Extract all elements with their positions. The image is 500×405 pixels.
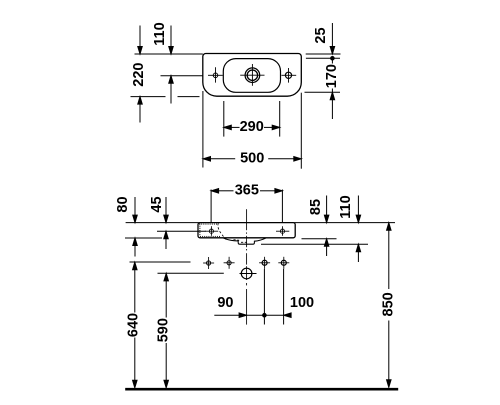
svg-text:220: 220 bbox=[131, 62, 147, 86]
svg-text:500: 500 bbox=[240, 151, 264, 167]
svg-text:85: 85 bbox=[308, 199, 324, 215]
svg-text:290: 290 bbox=[240, 119, 264, 135]
svg-text:90: 90 bbox=[217, 295, 233, 311]
svg-text:100: 100 bbox=[290, 295, 314, 311]
svg-text:850: 850 bbox=[380, 292, 396, 316]
svg-text:25: 25 bbox=[313, 27, 329, 43]
svg-text:45: 45 bbox=[149, 196, 165, 212]
svg-text:640: 640 bbox=[126, 313, 142, 337]
svg-text:110: 110 bbox=[152, 22, 168, 45]
svg-text:590: 590 bbox=[155, 318, 171, 342]
svg-text:80: 80 bbox=[115, 196, 131, 212]
svg-text:365: 365 bbox=[235, 183, 259, 199]
svg-text:170: 170 bbox=[324, 64, 340, 88]
svg-text:110: 110 bbox=[338, 195, 354, 218]
